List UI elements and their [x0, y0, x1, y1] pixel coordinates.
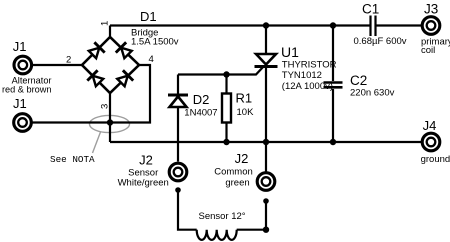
svg-text:0.68µF 600v: 0.68µF 600v: [354, 36, 407, 47]
svg-text:White/green: White/green: [118, 177, 169, 188]
svg-text:C1: C1: [362, 2, 379, 17]
svg-text:ground: ground: [421, 154, 450, 165]
svg-text:C2: C2: [350, 73, 367, 88]
svg-text:See NOTA: See NOTA: [50, 154, 95, 165]
svg-text:J4: J4: [423, 118, 437, 133]
svg-text:J2: J2: [235, 151, 249, 166]
svg-text:THYRISTOR: THYRISTOR: [282, 59, 337, 70]
svg-text:D1: D1: [140, 9, 157, 24]
svg-text:(12A 1000v): (12A 1000v): [282, 81, 333, 92]
svg-text:J1: J1: [13, 96, 27, 111]
svg-text:1N4007: 1N4007: [184, 108, 217, 119]
svg-text:D2: D2: [193, 92, 210, 107]
svg-text:red & brown: red & brown: [2, 85, 52, 95]
svg-text:J3: J3: [424, 2, 438, 17]
svg-text:4: 4: [149, 54, 154, 65]
svg-text:1.5A 1500v: 1.5A 1500v: [131, 37, 179, 48]
svg-text:3: 3: [99, 104, 110, 109]
svg-text:220n 630v: 220n 630v: [350, 88, 395, 99]
svg-text:green: green: [225, 178, 249, 189]
svg-text:coil: coil: [421, 45, 435, 56]
svg-text:10K: 10K: [237, 107, 255, 118]
svg-text:U1: U1: [281, 44, 299, 60]
svg-text:Sensor 12°: Sensor 12°: [199, 211, 246, 222]
svg-text:1: 1: [99, 21, 110, 26]
svg-text:J2: J2: [139, 152, 153, 167]
svg-text:2: 2: [66, 54, 71, 65]
svg-text:Common: Common: [214, 167, 253, 178]
svg-text:TYN1012: TYN1012: [282, 70, 322, 81]
svg-text:J1: J1: [13, 39, 27, 54]
svg-text:R1: R1: [236, 91, 253, 106]
